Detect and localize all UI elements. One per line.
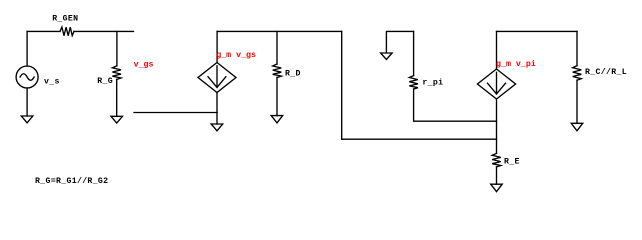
wire resistor R_C//R_L top (576, 31, 578, 65)
wire drain-node down link (341, 31, 343, 139)
svg-text:g_m v_gs: g_m v_gs (216, 51, 256, 60)
ground below R_D (271, 116, 283, 123)
svg-text:v_s: v_s (44, 78, 60, 87)
wire top rail drain node (217, 30, 342, 32)
wire source stub (v_gs minus) (134, 112, 217, 114)
wire r_pi bottom to emitter node (414, 89, 497, 121)
svg-text:g_m v_pi: g_m v_pi (496, 59, 536, 69)
svg-text:R_C//R_L: R_C//R_L (585, 67, 627, 77)
ground below R_C//R_L (571, 123, 583, 131)
svg-text:R_G: R_G (97, 77, 113, 86)
wire diamond G1 bottom stem (216, 93, 218, 125)
wire diamond G1 top stem (216, 31, 218, 62)
wire long horizontal to emitter node (342, 138, 497, 140)
wire base ground link (386, 31, 413, 52)
wire left vertical source top (26, 31, 28, 66)
resistor R_E (492, 153, 501, 167)
source v_s (16, 66, 38, 88)
ground below R_G (111, 116, 123, 123)
svg-text:r_pi: r_pi (422, 77, 443, 87)
wire R_C//R_L bottom (576, 80, 578, 123)
wire R_D bottom (276, 78, 278, 116)
wire resistor R_D top (276, 31, 278, 64)
resistor R_D (273, 64, 282, 78)
wire top-left rail from source to gate stub (27, 30, 133, 32)
resistor R_G (112, 66, 121, 80)
wire R_G bottom (116, 79, 118, 116)
wire diamond G2 top stem (496, 31, 498, 69)
wire emitter vertical through junctions to R_E (496, 99, 498, 153)
svg-text:R_E: R_E (504, 158, 520, 167)
ground below R_E (491, 184, 503, 191)
wire top-right rail collector node (497, 30, 578, 32)
op-amp U1 dependent source G1 diamond g_m v_gs (198, 63, 236, 93)
wire resistor R_G vertical top (116, 31, 118, 66)
wire R_E bottom (496, 167, 498, 184)
ground below G1 (211, 124, 223, 131)
resistor r_pi (409, 76, 418, 89)
resistor R_GEN (60, 27, 74, 36)
wire resistor r_pi top (413, 31, 415, 75)
wire source bottom (26, 88, 28, 116)
resistor R_C//R_L (573, 66, 582, 81)
svg-text:R_GEN: R_GEN (52, 15, 78, 24)
ground at base node (381, 53, 393, 60)
ground below v_s (21, 116, 33, 123)
svg-text:R_G=R_G1//R_G2: R_G=R_G1//R_G2 (35, 176, 108, 186)
svg-text:v_gs: v_gs (134, 60, 154, 69)
op-amp U2 dependent source G2 diamond g_m v_pi (477, 69, 515, 99)
svg-text:R_D: R_D (285, 70, 301, 79)
